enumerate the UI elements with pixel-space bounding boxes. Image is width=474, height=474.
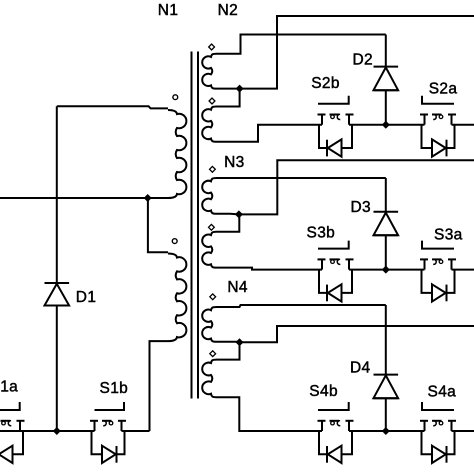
label S3a [434, 227, 463, 244]
polarity dot N4 winding 1 [210, 294, 216, 300]
svg-text:S3a: S3a [434, 227, 463, 244]
svg-text:S2a: S2a [429, 81, 458, 98]
wire N4 winding2 bottom to S4 row [217, 397, 323, 431]
node D junction [235, 210, 243, 218]
label N4 [227, 279, 248, 296]
secondary winding N2 section 2 [202, 107, 216, 142]
label D3 [351, 199, 372, 216]
wire S2b to node C [349, 124, 425, 126]
wire N3 winding2 bottom to S3 row [217, 268, 323, 270]
wire N3 winding1 bottom to node D [217, 213, 239, 216]
secondary winding N2 section 1 [202, 54, 216, 89]
polarity dot N4 winding 2 [210, 351, 216, 357]
wire node A to primary winding 1 bottom [148, 197, 168, 199]
polarity dot N2 winding 1 [209, 44, 215, 50]
wire N2 winding1 top to D2 cathode rail [217, 35, 386, 54]
svg-text:N1: N1 [158, 2, 179, 19]
svg-text:S4b: S4b [309, 383, 338, 400]
bottom-left bus wire [0, 430, 150, 432]
wire S3b to node E [349, 269, 425, 271]
wire node F down to N4 winding 2 top [217, 342, 240, 359]
wire S4b to node G [349, 430, 425, 432]
wire S3a to right edge [452, 269, 474, 271]
label S1a (partially cut at edge) [0, 379, 18, 396]
label S4a [428, 383, 457, 400]
label N3 [224, 154, 245, 171]
diode D4 [374, 305, 399, 431]
transistor S3b [318, 241, 354, 302]
svg-text:S1a: S1a [0, 379, 18, 396]
diode D3 [374, 178, 399, 270]
transistor S1b [90, 402, 126, 463]
svg-text:D1: D1 [76, 289, 97, 306]
node E junction D3 anode [382, 266, 390, 274]
primary winding N1 section 1 [168, 110, 186, 198]
label D4 [350, 360, 371, 377]
wire N3 winding1 top to D3 cathode [217, 177, 386, 179]
label S2a [429, 81, 458, 98]
label S3b [307, 224, 336, 241]
wire S4a to right edge [452, 430, 474, 432]
wire N2 winding1 bottom to node B [217, 88, 240, 90]
svg-text:N4: N4 [227, 279, 248, 296]
label D1 [76, 289, 97, 306]
node G junction D4 anode [382, 427, 390, 435]
node F junction [236, 338, 244, 346]
wire S2a to right edge [452, 124, 474, 126]
wire node F to lower output rail [240, 326, 474, 342]
wire node D to mid output rail [239, 160, 474, 214]
polarity dot N2 winding 2 [209, 98, 215, 104]
node D1 anode junction [53, 427, 61, 435]
wire node D down to N3 winding 2 top [217, 214, 240, 231]
label D2 [353, 51, 374, 68]
wire node A down to primary winding 2 top [148, 198, 168, 252]
svg-text:D3: D3 [351, 199, 372, 216]
transistor S2b [318, 96, 354, 157]
svg-text:N2: N2 [218, 2, 239, 19]
transformer core [192, 52, 199, 399]
transistor S3a [420, 241, 456, 302]
secondary winding N3 section 2 [202, 232, 216, 268]
svg-text:S2b: S2b [311, 75, 340, 92]
diode D2 [374, 35, 399, 125]
wire node B to top output rail [240, 16, 474, 89]
label S4b [309, 383, 338, 400]
svg-text:S3b: S3b [307, 224, 336, 241]
svg-text:N3: N3 [224, 154, 245, 171]
label S1b [100, 380, 129, 397]
secondary winding N4 section 2 [202, 360, 216, 398]
wire primary winding 2 bottom to bottom-left bus [150, 341, 169, 431]
wire N2 winding2 bottom to S2 row [217, 125, 323, 142]
diode D1 [45, 106, 70, 431]
wire node B down to N2 winding 2 top [217, 89, 240, 107]
transistor S4a [420, 402, 456, 463]
secondary winding N4 section 1 [202, 307, 216, 342]
wire N4 winding1 bottom to node F [217, 341, 240, 343]
label N1 [158, 2, 179, 19]
node B junction [236, 85, 244, 93]
label N2 [218, 2, 239, 19]
transistor S4b [318, 402, 354, 463]
wire N4 winding1 top to D4 cathode [217, 305, 386, 307]
node A junction [144, 194, 152, 202]
wire input left rail to node A [0, 197, 148, 199]
svg-text:S1b: S1b [100, 380, 129, 397]
svg-text:S4a: S4a [428, 383, 457, 400]
wire D1 cathode rail to primary winding 1 top [57, 106, 168, 108]
transistor S2a [420, 96, 456, 157]
transistor S1a [0, 402, 25, 463]
label S2b [311, 75, 340, 92]
secondary winding N3 section 1 [202, 178, 216, 214]
polarity dot N3 winding 1 [210, 166, 216, 172]
polarity dot N3 winding 2 [209, 224, 215, 230]
polarity dot primary winding 1 [173, 95, 178, 100]
primary winding N1 section 2 [168, 254, 186, 342]
svg-text:D2: D2 [353, 51, 374, 68]
node C junction D2 anode [382, 121, 390, 129]
svg-text:D4: D4 [350, 360, 371, 377]
polarity dot primary winding 2 [172, 239, 177, 244]
